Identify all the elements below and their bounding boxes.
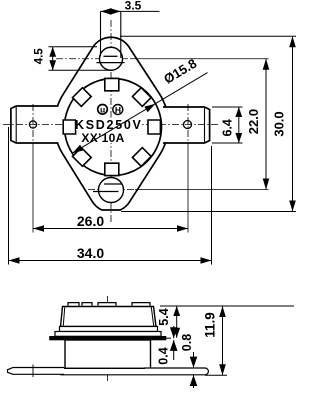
- terminal hole left: [29, 121, 36, 128]
- dimension 3.5: [101, 10, 160, 12]
- terminal T1 (left): [11, 106, 58, 143]
- center line of hole H2 (extends to 22.0 dim): [88, 189, 135, 191]
- horizontal center line: [3, 124, 219, 126]
- terminal T2 (right): [163, 107, 210, 143]
- phenolic body (side view): [65, 340, 151, 369]
- metal cap (side view): [61, 307, 157, 327]
- slot lines in hole H2: [104, 183, 122, 185]
- svg-text:Ø15.8: Ø15.8: [161, 56, 199, 87]
- thermostat body circle (D15.8): [65, 79, 162, 176]
- crimp tab at 6 o'clock: [105, 163, 119, 175]
- svg-text:H: H: [115, 105, 121, 115]
- bottom bracket with right ear: [61, 368, 208, 375]
- svg-text:30.0: 30.0: [272, 111, 287, 136]
- svg-text:5.4: 5.4: [157, 308, 171, 325]
- cap crimp band: [55, 332, 161, 337]
- vertical center line: [110, 20, 112, 222]
- dimension 0.4: [158, 337, 171, 339]
- side view vertical center line: [107, 296, 109, 382]
- certification mark uL: [98, 105, 108, 115]
- label KSD250V: [76, 118, 142, 131]
- crimp tab at 9 o'clock: [63, 120, 75, 134]
- mounting plate (side view): [50, 336, 167, 340]
- svg-text:0.4: 0.4: [157, 347, 171, 364]
- center line of hole H1 (extends to 22.0 dim): [56, 58, 130, 60]
- slot lines in hole H1: [104, 55, 118, 57]
- svg-text:34.0: 34.0: [77, 245, 104, 261]
- svg-text:u: u: [100, 105, 105, 115]
- dimension 5.4: [160, 305, 294, 307]
- dimension 0.8: [193, 352, 195, 368]
- cap top bumps: [68, 303, 79, 307]
- terminal hole right: [184, 121, 192, 129]
- certification mark H: [113, 105, 123, 115]
- svg-text:22.0: 22.0: [246, 109, 261, 134]
- mounting hole H2 (bottom): [99, 178, 124, 203]
- cap rim: [60, 327, 158, 332]
- label XX 10A: [82, 132, 126, 144]
- crimp tab at 4:30: [132, 148, 151, 167]
- svg-text:6.4: 6.4: [221, 119, 235, 136]
- mounting hole H1 (top): [100, 47, 123, 70]
- dimension 26.0: [33, 228, 188, 230]
- svg-text:0.8: 0.8: [180, 334, 194, 351]
- svg-text:XX’10A: XX’10A: [81, 131, 124, 145]
- dimension 22.0: [265, 59, 267, 190]
- dimension 11.9: [205, 374, 227, 376]
- center line of terminal hole left (ext for 26.0): [32, 104, 34, 145]
- dimension 6.4: [212, 106, 243, 108]
- dimension 34.0: [8, 127, 10, 265]
- flange mounting bracket outline: [55, 37, 169, 210]
- leader line D15.8: [72, 73, 207, 154]
- crimp tab at 10:30: [73, 88, 92, 107]
- dimension 4.5: [49, 46, 98, 48]
- svg-text:26.0: 26.0: [77, 213, 104, 229]
- crimp tab at 12 o'clock: [105, 78, 119, 90]
- crimp tab at 3 o'clock: [148, 120, 160, 134]
- slot side walls (3.5 wide) of hole H1: [100, 11, 102, 56]
- svg-text:4.5: 4.5: [34, 48, 46, 65]
- dimension 30.0: [120, 35, 296, 37]
- svg-text:3.5: 3.5: [125, 0, 142, 12]
- svg-text:11.9: 11.9: [203, 312, 218, 338]
- crimp tab at 1:30: [132, 88, 151, 107]
- terminal blade (side view): [8, 368, 65, 375]
- center line of terminal hole right (ext for 26.0): [187, 104, 189, 145]
- crimp tab at 7:30: [73, 148, 92, 167]
